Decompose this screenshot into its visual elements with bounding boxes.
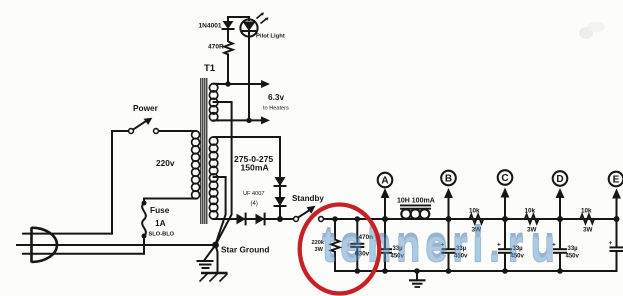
- svg-text:10k: 10k: [469, 208, 480, 215]
- svg-text:C: C: [501, 173, 508, 184]
- svg-text:+: +: [609, 240, 613, 247]
- svg-text:Standby: Standby: [292, 194, 324, 203]
- svg-text:A: A: [381, 176, 388, 187]
- svg-text:6.3v: 6.3v: [268, 92, 285, 102]
- svg-text:10k: 10k: [581, 208, 592, 215]
- svg-text:Pilot Light: Pilot Light: [256, 34, 285, 40]
- svg-text:450v: 450v: [566, 254, 580, 260]
- svg-text:SLO-BLO: SLO-BLO: [149, 232, 175, 238]
- svg-text:.ru: .ru: [489, 221, 563, 272]
- svg-text:3W: 3W: [583, 227, 593, 234]
- svg-text:Power: Power: [133, 103, 159, 113]
- svg-text:D: D: [556, 174, 563, 185]
- svg-text:470R: 470R: [208, 44, 224, 51]
- svg-text:1A: 1A: [155, 218, 166, 228]
- svg-text:Star Ground: Star Ground: [221, 245, 269, 255]
- svg-text:220v: 220v: [156, 158, 175, 168]
- svg-text:E: E: [613, 175, 620, 186]
- svg-text:1N4001: 1N4001: [199, 23, 222, 30]
- svg-text:Fuse: Fuse: [150, 205, 170, 215]
- svg-text:UF 4007: UF 4007: [243, 191, 264, 197]
- svg-text:T1: T1: [204, 63, 216, 74]
- svg-text:to Heaters: to Heaters: [263, 106, 289, 112]
- svg-text:(4): (4): [251, 201, 258, 207]
- svg-text:B: B: [445, 174, 452, 185]
- svg-text:tehneri: tehneri: [322, 221, 488, 272]
- svg-text:10k: 10k: [525, 208, 536, 215]
- svg-text:10H 100mA: 10H 100mA: [397, 198, 435, 205]
- svg-text:33µ: 33µ: [568, 246, 579, 252]
- svg-text:150mA: 150mA: [241, 163, 269, 173]
